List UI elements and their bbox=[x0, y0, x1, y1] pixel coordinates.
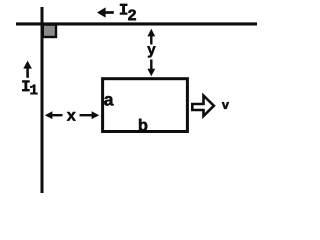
dimension arrow y (double-headed vertical) bbox=[147, 29, 155, 77]
label I2 bbox=[120, 4, 136, 20]
wire I2 (horizontal top wire) bbox=[16, 22, 257, 25]
label a (left side of loop) bbox=[104, 96, 113, 106]
current arrow I1 (pointing up) bbox=[23, 61, 32, 78]
dimension arrow x (double-headed horizontal) bbox=[45, 111, 99, 119]
label y bbox=[147, 46, 155, 57]
current arrow I2 (pointing left) bbox=[97, 7, 114, 17]
wire I1 (vertical left wire) bbox=[41, 7, 44, 193]
label I1 bbox=[22, 81, 37, 95]
right-angle marker (gray square at wire intersection) bbox=[43, 25, 56, 37]
label v bbox=[222, 102, 229, 109]
label b (bottom side of loop) bbox=[139, 119, 147, 131]
rectangular loop bbox=[103, 79, 188, 132]
velocity block arrow v (hollow arrow pointing right) bbox=[192, 96, 214, 116]
label x bbox=[67, 112, 76, 121]
